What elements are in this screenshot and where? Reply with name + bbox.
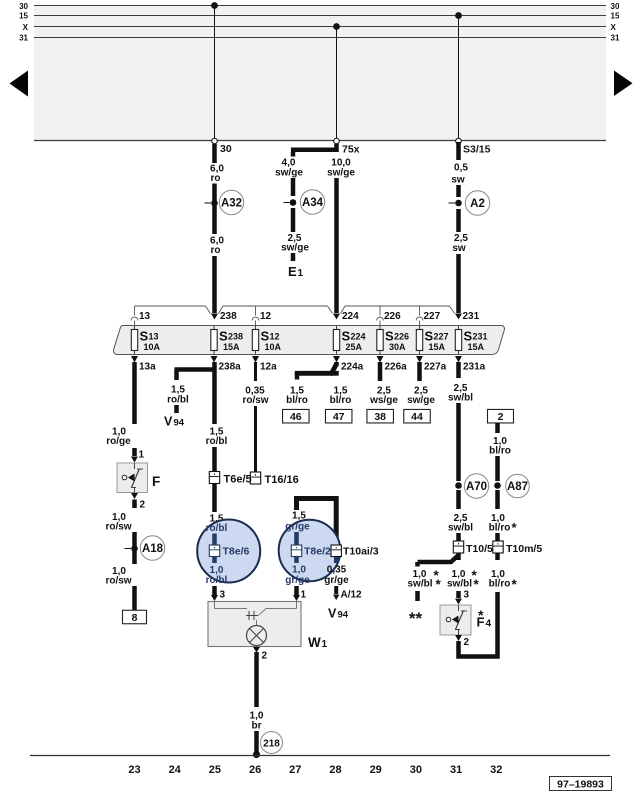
svg-text:sw/bl: sw/bl [447, 579, 472, 590]
diagram number box 97-19893 [550, 777, 612, 791]
svg-text:38: 38 [374, 411, 386, 423]
junction on line 30 [211, 2, 218, 9]
svg-text:sw/bl: sw/bl [407, 579, 432, 590]
svg-text:15: 15 [19, 12, 28, 21]
svg-text:8: 8 [132, 612, 138, 624]
svg-text:12a: 12a [260, 362, 277, 373]
svg-text:1,5: 1,5 [292, 511, 306, 522]
svg-text:224a: 224a [341, 362, 364, 373]
connection A18 [131, 545, 138, 552]
svg-text:15A: 15A [468, 342, 485, 352]
fuse terminal arc at x=255.5 [255, 306, 257, 316]
blue highlight circle left (T8e) [197, 520, 260, 583]
svg-text:bl/ro: bl/ro [489, 523, 511, 534]
gr/ge jumper wire over connectors [297, 499, 337, 546]
svg-text:25: 25 [209, 764, 221, 776]
ground point 218 [253, 751, 260, 758]
svg-text:31: 31 [450, 764, 462, 776]
svg-text:94: 94 [338, 610, 349, 621]
svg-text:sw/bl: sw/bl [448, 393, 473, 404]
svg-text:V: V [164, 415, 173, 429]
svg-text:1,0: 1,0 [292, 565, 306, 576]
svg-text:238: 238 [228, 332, 243, 342]
W1 internal wiring [214, 602, 216, 609]
connector T10/5 [453, 541, 463, 553]
svg-text:F: F [477, 615, 485, 630]
svg-text:47: 47 [333, 411, 345, 423]
terminal S3/15 circle [456, 138, 462, 144]
svg-text:13: 13 [149, 332, 159, 342]
svg-text:2: 2 [262, 651, 268, 662]
svg-text:ro/sw: ro/sw [242, 395, 268, 406]
svg-text:A34: A34 [302, 197, 324, 209]
connection A87 [494, 482, 501, 489]
fuse banner outline [135, 305, 206, 307]
wire F4 pin2 to junction with bl/ro [459, 592, 498, 657]
svg-text:218: 218 [263, 739, 280, 750]
wire A2-S231 (2,5 sw) [456, 209, 461, 232]
svg-text:sw/ge: sw/ge [281, 243, 309, 254]
svg-text:ws/ge: ws/ge [369, 395, 398, 406]
drop wire from 30 to terminal 30 [214, 6, 216, 140]
svg-text:bl/ro: bl/ro [489, 579, 511, 590]
connector T10m/5 [493, 541, 503, 553]
svg-text:ro/sw: ro/sw [105, 576, 131, 587]
svg-text:29: 29 [370, 764, 382, 776]
svg-text:44: 44 [411, 411, 423, 423]
wire S13-F (1,0 ro/ge) [132, 362, 137, 424]
svg-text:1: 1 [322, 639, 328, 650]
svg-text:A87: A87 [507, 481, 528, 493]
svg-text:0,5: 0,5 [454, 163, 468, 174]
bus line 31 [34, 37, 606, 39]
svg-text:A/12: A/12 [341, 590, 363, 601]
svg-text:F: F [152, 474, 160, 489]
svg-text:15A: 15A [223, 342, 240, 352]
svg-text:226: 226 [384, 311, 401, 322]
fuse terminal arc at x=380 [379, 306, 381, 316]
fuse terminal arc at x=419.5 [419, 306, 421, 316]
connector T8e/6 [209, 545, 219, 557]
svg-text:46: 46 [290, 411, 302, 423]
svg-text:S3/15: S3/15 [463, 144, 491, 156]
svg-text:231a: 231a [463, 362, 486, 373]
connection A32 [211, 200, 218, 207]
svg-text:T10/5: T10/5 [466, 543, 493, 555]
wire A87-T10m/5 (1,0 bl/ro*) [495, 490, 500, 509]
svg-text:sw/ge: sw/ge [407, 395, 435, 406]
svg-text:31: 31 [611, 34, 620, 43]
svg-text:226a: 226a [385, 362, 408, 373]
svg-text:T8e/2: T8e/2 [304, 546, 331, 558]
lamp symbol in W1 [256, 620, 258, 626]
svg-text:30A: 30A [389, 342, 406, 352]
fuse S227 15A [419, 326, 421, 330]
switch F [117, 463, 148, 493]
fuse output arrows and labels [131, 356, 138, 363]
wire S3/15-A2 (0,5 sw) [456, 142, 461, 160]
svg-text:238a: 238a [219, 362, 242, 373]
svg-text:32: 32 [490, 764, 502, 776]
fuse strip band [113, 326, 504, 355]
fuse S226 30A [379, 326, 381, 330]
svg-text:bl/ro: bl/ro [489, 446, 511, 457]
pin 2 of switch F [131, 493, 138, 499]
svg-text:**: ** [409, 609, 423, 628]
branch to V94 (1,5 ro/bl) [175, 367, 215, 372]
fuse S238 15A [213, 326, 215, 330]
pin 3 of switch F4 [455, 599, 462, 605]
svg-text:1: 1 [139, 450, 145, 461]
terminal 75x circle [334, 138, 340, 144]
svg-text:A2: A2 [470, 198, 485, 210]
svg-text:3: 3 [464, 590, 470, 601]
svg-text:ro/ge: ro/ge [106, 436, 131, 447]
svg-text:224: 224 [351, 332, 366, 342]
svg-text:227: 227 [424, 311, 441, 322]
svg-text:75x: 75x [342, 144, 360, 156]
svg-text:V: V [328, 607, 337, 621]
svg-text:ro/bl: ro/bl [206, 575, 228, 586]
connector T6e/5 [209, 472, 219, 484]
svg-text:bl/ro: bl/ro [330, 395, 352, 406]
svg-text:15: 15 [611, 12, 620, 21]
svg-text:ro: ro [211, 245, 221, 256]
connection A2 [455, 200, 462, 207]
svg-text:X: X [611, 23, 617, 32]
svg-text:T16/16: T16/16 [265, 474, 299, 486]
svg-text:94: 94 [174, 418, 185, 429]
bus line X [34, 26, 606, 28]
right leg of jumper through T10ai/3 [334, 557, 339, 564]
svg-text:2: 2 [464, 637, 470, 648]
wire S231-A70 (2,5 sw/bl) [456, 362, 461, 378]
svg-text:24: 24 [169, 764, 182, 776]
wire A18-8 (1,0 ro/sw) [132, 551, 137, 564]
svg-text:*: * [512, 577, 518, 592]
fuse S231 15A [458, 326, 460, 330]
wire T6e/5-T8e/6 (1,5 ro/bl) [212, 484, 217, 513]
svg-text:T10m/5: T10m/5 [506, 543, 542, 555]
svg-text:gr/ge: gr/ge [285, 522, 310, 533]
svg-text:231: 231 [473, 332, 488, 342]
connection A70 [455, 482, 462, 489]
connection A34 [290, 199, 297, 206]
svg-text:gr/ge: gr/ge [285, 575, 310, 586]
svg-text:30: 30 [220, 143, 232, 155]
drop wire from X to terminal 75x [336, 27, 338, 140]
svg-text:3: 3 [220, 590, 226, 601]
left continuation arrow [10, 71, 29, 97]
fuse S13 10A [134, 326, 136, 330]
svg-text:1: 1 [301, 590, 307, 601]
switch F4 [440, 605, 471, 635]
wire A34-E1 (2,5 sw/ge) [291, 208, 296, 232]
svg-text:sw/ge: sw/ge [327, 168, 355, 179]
svg-text:X: X [23, 23, 29, 32]
wire S224 split bar [334, 362, 339, 366]
right continuation arrow [614, 71, 633, 97]
svg-text:bl/ro: bl/ro [286, 395, 308, 406]
svg-text:231: 231 [463, 311, 480, 322]
svg-text:T8e/6: T8e/6 [223, 546, 250, 558]
svg-text:W: W [308, 635, 321, 650]
wire W1 pin1 stub [294, 586, 299, 595]
connector T16/16 [250, 472, 260, 484]
wire W1-218 (1,0 br) [254, 652, 259, 707]
svg-text:ro/bl: ro/bl [167, 395, 189, 406]
svg-text:30: 30 [611, 2, 620, 11]
fuse terminal arc at x=134.5 [134, 306, 136, 316]
junction on line X [333, 23, 340, 30]
drop wire from 15 to terminal S3/15 [458, 16, 460, 142]
bus line 30 [34, 5, 606, 7]
wire branch to E1 (4,0 sw/ge) [291, 152, 296, 157]
band bottom border [34, 140, 606, 142]
svg-text:ro/sw: ro/sw [105, 522, 131, 533]
svg-text:br: br [252, 721, 262, 732]
svg-text:T10ai/3: T10ai/3 [343, 546, 379, 558]
svg-text:ro: ro [211, 173, 221, 184]
pin 2 of W1 [256, 646, 258, 650]
svg-text:30: 30 [410, 764, 422, 776]
svg-text:sw/bl: sw/bl [448, 523, 473, 534]
svg-text:23: 23 [128, 764, 140, 776]
wire label gap continues [212, 184, 217, 235]
svg-text:28: 28 [329, 764, 341, 776]
svg-text:224: 224 [342, 311, 359, 322]
connector T10ai/3 [331, 545, 341, 557]
svg-text:2: 2 [498, 411, 504, 423]
svg-text:2: 2 [140, 500, 146, 511]
blue highlight circle right (T8e/T10ai) [279, 520, 341, 582]
svg-text:ro/bl: ro/bl [206, 436, 228, 447]
svg-text:E: E [288, 264, 297, 279]
svg-text:A32: A32 [221, 198, 242, 210]
lamp unit W1 box [208, 602, 301, 647]
svg-text:gr/ge: gr/ge [324, 575, 349, 586]
wire from 2 (1,0 bl/ro) [495, 423, 500, 433]
svg-text:A18: A18 [142, 543, 164, 555]
bus line 15 [34, 15, 606, 17]
svg-text:12: 12 [260, 311, 272, 322]
svg-text:T6e/5: T6e/5 [224, 474, 252, 486]
svg-text:0,35: 0,35 [327, 565, 347, 576]
wire S226-38 (2,5 ws/ge) [378, 362, 383, 381]
junction on line 15 [455, 12, 462, 19]
svg-text:A70: A70 [466, 481, 487, 493]
svg-text:ro/bl: ro/bl [206, 523, 228, 534]
terminal box 8 [123, 610, 147, 624]
svg-text:226: 226 [394, 332, 409, 342]
connector T8e/2 [291, 545, 301, 557]
svg-text:238: 238 [220, 311, 237, 322]
pin 1 of switch F [131, 457, 138, 463]
wire A70-T10/5 (2,5 sw/bl) [456, 490, 461, 509]
svg-text:12: 12 [270, 332, 280, 342]
svg-text:1: 1 [298, 268, 304, 279]
svg-text:sw/ge: sw/ge [275, 168, 303, 179]
svg-text:*: * [474, 577, 480, 592]
svg-text:31: 31 [19, 34, 28, 43]
svg-text:10A: 10A [265, 342, 282, 352]
svg-text:*: * [436, 577, 442, 592]
svg-text:13: 13 [139, 311, 151, 322]
fuse S12 10A [255, 326, 257, 330]
terminal box 2 [488, 409, 514, 423]
wire 75x vertical [334, 144, 339, 152]
terminal 30 circle [212, 138, 218, 144]
svg-text:sw: sw [452, 243, 466, 254]
svg-text:30: 30 [19, 2, 28, 11]
W1 switch contact symbol [248, 611, 250, 620]
svg-text:4: 4 [486, 619, 492, 630]
bottom track line [30, 755, 610, 757]
svg-text:13a: 13a [139, 362, 156, 373]
svg-text:227: 227 [434, 332, 449, 342]
split below T10/5 [456, 553, 461, 560]
pin 2 of switch F4 [455, 635, 462, 641]
svg-text:227a: 227a [424, 362, 447, 373]
svg-text:10A: 10A [144, 342, 161, 352]
wire S227-44 (2,5 sw/ge) [417, 362, 422, 381]
wire T10m/5 down (1,0 bl/ro*) [495, 553, 500, 560]
wire 30-A32 (6,0 ro) [212, 144, 217, 163]
fuse S224 25A [336, 326, 338, 330]
svg-text:sw: sw [451, 175, 465, 186]
svg-text:27: 27 [289, 764, 301, 776]
svg-text:97–19893: 97–19893 [557, 779, 604, 791]
wire S12-T16/16 (0,35 ro/sw) [254, 362, 257, 381]
wire W1 pin3 stub [212, 586, 217, 595]
wire S238 down [212, 362, 217, 424]
svg-text:15A: 15A [429, 342, 446, 352]
branch bend to sw/ge 4,0 [291, 148, 339, 153]
svg-text:25A: 25A [346, 342, 363, 352]
svg-text:26: 26 [249, 764, 261, 776]
top power-rail band background [34, 6, 606, 142]
